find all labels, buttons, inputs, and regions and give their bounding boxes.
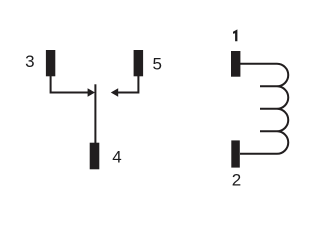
common pole wire bbox=[94, 84, 96, 144]
coil L1 bbox=[277, 64, 288, 154]
svg-text:2: 2 bbox=[232, 171, 241, 190]
terminal pin 3 bbox=[46, 50, 55, 76]
pin label 1 bbox=[233, 29, 237, 41]
wire coil to pin 2 bbox=[240, 153, 277, 155]
coil loop tick 3 bbox=[260, 130, 277, 132]
terminal pin 1 bbox=[231, 51, 240, 77]
svg-text:3: 3 bbox=[25, 52, 34, 71]
terminal pin 5 bbox=[134, 50, 144, 76]
svg-text:4: 4 bbox=[112, 148, 121, 167]
terminal pin 2 bbox=[231, 140, 240, 167]
NC contact arrowhead bbox=[88, 88, 95, 96]
wire pin 1 to coil bbox=[240, 63, 277, 65]
terminal pin 4 bbox=[90, 143, 100, 170]
NO contact arrowhead bbox=[111, 88, 118, 96]
coil loop tick 2 bbox=[260, 108, 277, 110]
wire pin 5 to NO contact bbox=[118, 76, 138, 93]
coil loop tick 1 bbox=[260, 85, 277, 87]
wire pin 3 to NC contact bbox=[51, 76, 88, 93]
svg-text:5: 5 bbox=[152, 55, 161, 74]
